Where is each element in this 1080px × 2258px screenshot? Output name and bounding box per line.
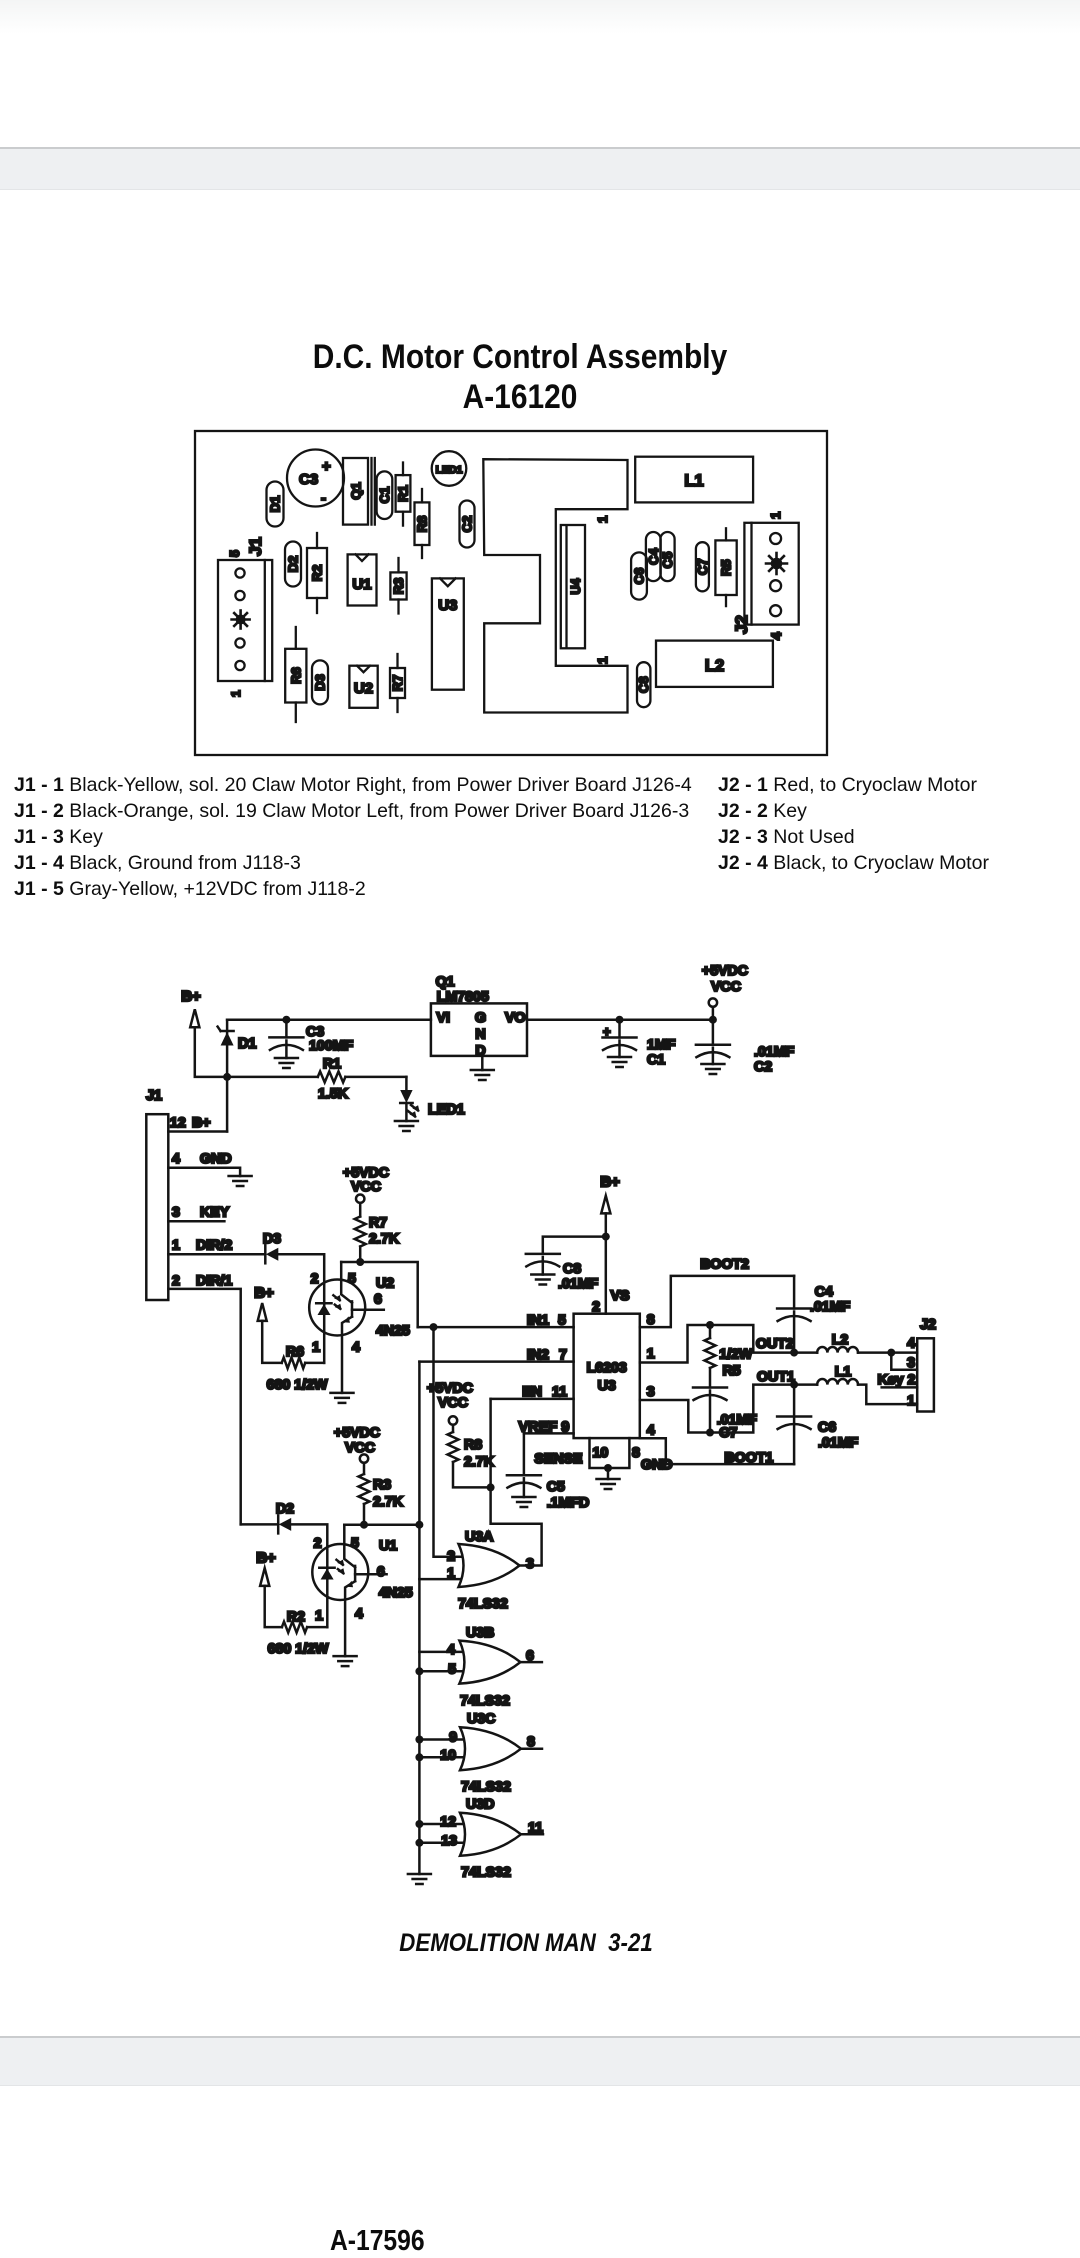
svg-text:R7: R7: [390, 675, 405, 692]
diode D2: [285, 542, 301, 587]
inductor L1 (pcb): [635, 457, 753, 503]
optocoupler U1 4N25: [312, 1525, 412, 1656]
svg-text:13: 13: [441, 1833, 457, 1849]
wire gate chain branch U3D pin13: [419, 1842, 467, 1845]
wiring list left column: [14, 772, 692, 902]
ground U2 pin4: [331, 1393, 354, 1403]
svg-text:N: N: [475, 1027, 485, 1043]
svg-text:B+: B+: [181, 988, 201, 1005]
capacitor C5 (pcb): [660, 532, 675, 581]
node +5VDC VCC (R7): [343, 1165, 389, 1203]
junction U3C pin10: [415, 1753, 423, 1761]
ground C1: [608, 1057, 631, 1067]
svg-text:680 1/2W: 680 1/2W: [267, 1377, 328, 1393]
resistor R6 680 1/2W: [262, 1321, 328, 1393]
wire J1-2 DIR/1 down to D2 row: [168, 1289, 240, 1525]
svg-text:R6: R6: [286, 1344, 304, 1360]
wire U3C output stub: [521, 1747, 542, 1750]
svg-text:U3A: U3A: [465, 1529, 493, 1545]
svg-text:6: 6: [374, 1291, 382, 1307]
svg-text:1MF: 1MF: [647, 1037, 676, 1053]
svg-text:10: 10: [440, 1748, 456, 1764]
svg-text:.01MF: .01MF: [810, 1299, 851, 1315]
node B+ (VS): [600, 1174, 620, 1214]
svg-text:LED1: LED1: [428, 1102, 465, 1118]
svg-text:5: 5: [228, 550, 242, 557]
heatsink plate: [483, 459, 627, 712]
svg-text:U1: U1: [379, 1538, 397, 1554]
svg-text:BOOT1: BOOT1: [724, 1450, 773, 1466]
svg-text:1: 1: [595, 516, 610, 523]
junction IN1 / U3A in2 branch: [430, 1323, 438, 1331]
IC U3 (pcb): [432, 578, 464, 689]
junction R7 / U2 pin5: [356, 1258, 364, 1266]
IC U1 (pcb): [348, 554, 377, 605]
page separator band bottom: [0, 2036, 1080, 2086]
svg-text:3: 3: [907, 1355, 915, 1371]
svg-text:4N25: 4N25: [376, 1323, 410, 1339]
svg-text:D: D: [475, 1043, 485, 1059]
svg-text:+: +: [603, 1024, 611, 1039]
svg-text:4: 4: [447, 1642, 455, 1658]
svg-text:LM7805: LM7805: [437, 989, 489, 1005]
capacitor C8 (pcb): [636, 662, 651, 707]
junction R3 / U1 pin5: [360, 1521, 368, 1529]
junction R8 / EN: [487, 1483, 495, 1491]
label EN 11: [522, 1384, 567, 1400]
wire U1 pin5 row to IN2 vertical: [344, 1523, 419, 1526]
svg-text:U3: U3: [598, 1378, 616, 1394]
node B+ (U2): [254, 1285, 274, 1321]
svg-text:C4: C4: [646, 548, 661, 565]
wiring list right column: [718, 772, 989, 876]
wire D1 branch vertical: [226, 1020, 229, 1132]
node +5VDC VCC (R3): [334, 1425, 380, 1463]
ground gate chain: [408, 1874, 431, 1884]
svg-text:C6: C6: [818, 1420, 836, 1436]
wire EN down to U3A output: [491, 1399, 542, 1565]
svg-text:LED1: LED1: [436, 464, 463, 476]
U3 bottom pins 10/8 sub-box: [590, 1438, 673, 1473]
svg-text:5: 5: [448, 1662, 456, 1678]
junction U3 gnd: [604, 1464, 612, 1472]
svg-text:5: 5: [348, 1271, 356, 1287]
IC U2 (pcb): [349, 666, 377, 708]
label IN2 7: [527, 1347, 567, 1363]
svg-text:U4: U4: [569, 578, 583, 594]
ground J1-4: [229, 1176, 252, 1186]
svg-text:J2: J2: [732, 615, 751, 634]
svg-text:DIR/2: DIR/2: [196, 1238, 232, 1254]
wire D2 to U1 pin2: [291, 1524, 327, 1627]
svg-text:VREF 9: VREF 9: [519, 1420, 570, 1436]
svg-text:R2: R2: [287, 1609, 305, 1625]
resistor R7: [390, 654, 405, 712]
svg-text:J1: J1: [146, 1088, 162, 1104]
connector J2 (schematic): [917, 1317, 936, 1412]
wire IN2 row: [419, 1360, 573, 1363]
svg-text:OUT2: OUT2: [756, 1336, 794, 1352]
capacitor C4 .01MF: [777, 1276, 850, 1353]
wire gate chain branch U3C pin10: [419, 1756, 467, 1759]
wire J1-12 to D1: [168, 1130, 227, 1133]
page separator band top: [0, 147, 1080, 190]
wire top rail to Q1 VI: [227, 1018, 431, 1021]
caption: [58, 1929, 994, 1958]
svg-text:VCC: VCC: [711, 979, 741, 995]
svg-text:R6: R6: [288, 667, 303, 684]
svg-text:74LS32: 74LS32: [461, 1779, 511, 1795]
bottom partial page number: [330, 2225, 425, 2258]
diode D1: [218, 1027, 257, 1052]
svg-text:2.7K: 2.7K: [464, 1454, 495, 1470]
svg-text:3: 3: [526, 1556, 534, 1572]
svg-text:100MF: 100MF: [309, 1038, 353, 1054]
svg-text:J2: J2: [920, 1317, 936, 1333]
wire branch to U3A input 1: [419, 1578, 465, 1581]
resistor R2: [307, 533, 327, 613]
resistor R2 680 1/2W: [265, 1586, 329, 1657]
resistor R8: [415, 489, 430, 558]
capacitor C2: [460, 501, 475, 548]
pin 12 B+ label: [170, 1115, 211, 1131]
junction C3 top: [282, 1016, 290, 1024]
label IN1 5: [527, 1313, 566, 1329]
connector J1 (schematic): [146, 1088, 168, 1300]
resistor R8 2.7K: [448, 1425, 495, 1488]
capacitor C6 (pcb): [631, 552, 647, 599]
svg-text:U2: U2: [354, 680, 373, 697]
svg-text:VO: VO: [505, 1010, 526, 1026]
junction R5 top: [706, 1321, 714, 1329]
junction C1: [616, 1016, 624, 1024]
ground U3 pin8: [597, 1479, 620, 1489]
svg-text:R8: R8: [464, 1437, 482, 1453]
svg-text:4: 4: [907, 1336, 915, 1352]
svg-text:R2: R2: [310, 565, 325, 582]
svg-text:Q1: Q1: [436, 974, 455, 990]
wire B+ stem to R1 row: [195, 1027, 227, 1077]
svg-text:KEY: KEY: [200, 1205, 230, 1221]
node +5VDC VCC (R8): [427, 1381, 473, 1425]
wire U3 pin1 to OUT2: [640, 1325, 794, 1363]
wire EN row: [491, 1398, 574, 1401]
diode D2: [276, 1501, 294, 1533]
svg-text:D2: D2: [286, 556, 301, 573]
svg-text:5: 5: [351, 1535, 359, 1551]
svg-text:R5: R5: [719, 559, 734, 576]
IC U3 L6203: [574, 1314, 640, 1438]
LED1 (schematic): [400, 1077, 465, 1121]
svg-text:12: 12: [170, 1115, 186, 1131]
svg-text:R7: R7: [369, 1215, 387, 1231]
svg-text:B+: B+: [600, 1174, 620, 1191]
OR gate U3A: [447, 1529, 534, 1612]
capacitor C3 100MF: [269, 1020, 353, 1058]
svg-text:R5: R5: [723, 1363, 741, 1379]
svg-text:U2: U2: [376, 1276, 394, 1292]
svg-text:L2: L2: [832, 1332, 849, 1348]
svg-text:IN1: IN1: [527, 1313, 549, 1329]
OR gate U3B: [447, 1625, 534, 1709]
wire Q1 ground stem: [481, 1056, 484, 1070]
svg-text:SENSE: SENSE: [534, 1451, 582, 1467]
connector J1: [218, 560, 272, 681]
svg-text:B+: B+: [256, 1550, 276, 1567]
svg-text:OUT1: OUT1: [757, 1369, 795, 1385]
svg-text:B+: B+: [254, 1285, 274, 1302]
svg-text:5: 5: [558, 1313, 566, 1329]
svg-text:C4: C4: [815, 1284, 833, 1300]
wire gate chain branch U3C pin9: [419, 1738, 467, 1741]
svg-text:L1: L1: [684, 472, 703, 490]
wire U3 pin8 to BOOT2: [640, 1276, 794, 1327]
wire gate chain branch U3D pin12: [419, 1823, 467, 1826]
svg-text:680 1/2W: 680 1/2W: [268, 1641, 329, 1657]
svg-text:C8: C8: [563, 1261, 581, 1277]
svg-text:VS: VS: [611, 1288, 630, 1304]
ground LED1: [395, 1121, 418, 1131]
resistor R3: [390, 558, 406, 614]
wire U3 gnd stem: [607, 1468, 610, 1479]
svg-text:U3D: U3D: [466, 1797, 494, 1813]
svg-text:D3: D3: [313, 674, 328, 691]
svg-text:10: 10: [593, 1445, 609, 1461]
transistor Q1: [343, 458, 375, 525]
svg-text:L6203: L6203: [587, 1360, 627, 1376]
node B+ (U1): [256, 1550, 276, 1586]
svg-text:D1: D1: [238, 1036, 256, 1052]
capacitor C8 .01MF: [526, 1237, 606, 1292]
inductor L2 (pcb): [656, 641, 773, 687]
ground C2: [701, 1064, 724, 1074]
inductor L1: [794, 1364, 917, 1404]
svg-text:VCC: VCC: [438, 1395, 468, 1411]
svg-text:+5VDC: +5VDC: [334, 1425, 380, 1441]
svg-text:4: 4: [355, 1606, 363, 1622]
svg-text:C6: C6: [632, 568, 647, 585]
wire gate chain branch U3B pin4: [419, 1651, 466, 1654]
capacitor C4 (pcb): [646, 532, 661, 581]
wire VREF row: [524, 1432, 574, 1435]
ground C5: [512, 1497, 535, 1507]
key pin star J1-3: [232, 611, 250, 629]
svg-text:R1: R1: [396, 485, 411, 502]
junction C8 branch: [602, 1233, 610, 1241]
junction U3C pin9: [415, 1736, 423, 1744]
svg-text:J1: J1: [246, 537, 265, 556]
wire Q1 VO to VCC node: [527, 1018, 713, 1021]
svg-text:1: 1: [768, 512, 783, 519]
optocoupler U2 4N25: [309, 1262, 410, 1393]
svg-text:1: 1: [312, 1339, 320, 1355]
svg-text:2.7K: 2.7K: [369, 1231, 400, 1247]
resistor R3 2.7K: [359, 1463, 404, 1525]
svg-text:1: 1: [907, 1393, 915, 1409]
pin 1 DIR/2 label: [172, 1238, 232, 1254]
svg-text:R3: R3: [373, 1477, 391, 1493]
svg-text:4: 4: [352, 1339, 360, 1355]
capacitor C7 (pcb): [695, 542, 710, 591]
svg-text:1: 1: [447, 1566, 455, 1582]
junction J2 pins 3/4: [887, 1349, 895, 1357]
ground C8: [531, 1275, 554, 1285]
svg-text:1: 1: [229, 690, 243, 697]
svg-text:DIR/1: DIR/1: [196, 1273, 232, 1289]
diode D1: [267, 482, 284, 527]
junction U3D pin12: [415, 1820, 423, 1828]
svg-text:8: 8: [632, 1445, 640, 1461]
wire J1-3 key stub: [168, 1220, 224, 1223]
board outline: [195, 431, 827, 755]
svg-text:1: 1: [647, 1346, 655, 1362]
svg-text:4: 4: [768, 632, 784, 640]
svg-text:-: -: [321, 490, 326, 507]
svg-text:9: 9: [449, 1730, 457, 1746]
svg-text:D2: D2: [276, 1501, 294, 1517]
svg-text:4N25: 4N25: [379, 1585, 413, 1601]
svg-text:.01MF: .01MF: [558, 1276, 599, 1292]
svg-text:C1: C1: [377, 487, 392, 504]
resistor R7 2.7K: [355, 1203, 400, 1262]
inductor L2: [794, 1332, 917, 1353]
svg-text:C3: C3: [299, 471, 318, 488]
wire VS: B+ down to U3 pin2: [605, 1213, 608, 1313]
svg-text:C5: C5: [547, 1479, 565, 1495]
wire U3B output stub: [520, 1661, 542, 1664]
wire J1-4 to ground: [168, 1168, 240, 1176]
svg-text:L1: L1: [835, 1364, 852, 1380]
wire U3 pin4 to BOOT1: [640, 1438, 794, 1464]
junction OUT2: [790, 1349, 798, 1357]
wire U3D output stub: [521, 1833, 543, 1836]
svg-text:Q1: Q1: [349, 482, 364, 499]
title: [62, 337, 977, 417]
svg-text:R8: R8: [415, 516, 430, 533]
svg-text:EN: EN: [522, 1384, 542, 1400]
svg-text:U3C: U3C: [467, 1711, 495, 1727]
svg-text:1: 1: [315, 1608, 323, 1624]
connector J2 (pcb): [744, 523, 798, 625]
svg-text:D1: D1: [268, 496, 283, 513]
svg-text:G: G: [475, 1010, 486, 1026]
LED1: [432, 451, 467, 486]
wire IN2 vertical down to gate chain: [418, 1362, 421, 1874]
svg-text:U1: U1: [352, 576, 371, 593]
svg-text:+5VDC: +5VDC: [702, 963, 748, 979]
key pin star J2-2: [766, 553, 787, 574]
svg-text:12: 12: [440, 1814, 456, 1830]
diode D3: [312, 660, 328, 704]
svg-text:2: 2: [447, 1549, 455, 1565]
svg-text:2: 2: [172, 1273, 180, 1289]
junction U3D pin13: [415, 1839, 423, 1847]
junction pin5 row / IN2 vertical: [415, 1521, 423, 1529]
svg-text:11: 11: [552, 1384, 567, 1400]
wire jumper to J2 pin3: [891, 1353, 917, 1370]
svg-text:.01MF: .01MF: [754, 1044, 795, 1060]
svg-text:1: 1: [595, 657, 610, 664]
svg-text:R3: R3: [391, 578, 406, 595]
svg-text:U3: U3: [438, 597, 457, 614]
svg-text:VCC: VCC: [345, 1440, 375, 1456]
svg-text:C5: C5: [660, 552, 675, 569]
svg-text:3: 3: [647, 1384, 655, 1400]
svg-text:VCC: VCC: [351, 1179, 381, 1195]
OR gate U3C: [440, 1711, 535, 1795]
svg-text:C7: C7: [695, 558, 710, 575]
capacitor C5 .1MFD: [507, 1433, 589, 1511]
svg-text:L2: L2: [705, 657, 724, 675]
svg-text:1.5K: 1.5K: [318, 1086, 349, 1102]
junction C2/VCC: [709, 1016, 717, 1024]
wire U3 pin3 to OUT1: [640, 1385, 794, 1433]
svg-text:4: 4: [172, 1151, 180, 1167]
svg-text:IN2: IN2: [527, 1347, 549, 1363]
wire D3 to U2 pin2: [278, 1254, 324, 1363]
wire gate chain branch U3B pin5: [419, 1670, 466, 1673]
svg-text:C1: C1: [647, 1052, 665, 1068]
svg-text:B+: B+: [192, 1115, 211, 1131]
pin 4 GND label: [172, 1151, 232, 1167]
svg-text:74LS32: 74LS32: [461, 1865, 511, 1881]
wire J1-1 to D3: [168, 1253, 265, 1256]
svg-text:74LS32: 74LS32: [458, 1596, 508, 1612]
wire IN1 branch down to U3A input 2: [434, 1327, 466, 1557]
capacitor C1 1MF: [603, 1020, 676, 1068]
pin 3 KEY label: [172, 1205, 230, 1221]
svg-text:1: 1: [172, 1238, 180, 1254]
resistor R1: [396, 463, 411, 526]
svg-text:2: 2: [314, 1536, 322, 1552]
svg-text:2.7K: 2.7K: [373, 1494, 404, 1510]
junction R5/C7 bottom: [706, 1429, 714, 1437]
svg-text:4: 4: [647, 1423, 655, 1439]
svg-text:Key 2: Key 2: [878, 1372, 916, 1388]
resistor R5 1/2W: [705, 1325, 753, 1388]
wire IN1 row: [418, 1326, 574, 1329]
OR gate U3D: [440, 1797, 543, 1881]
svg-text:U3B: U3B: [466, 1625, 494, 1641]
svg-text:D3: D3: [263, 1231, 281, 1247]
svg-text:6: 6: [377, 1564, 385, 1580]
capacitor C1: [377, 471, 393, 519]
svg-text:VI: VI: [437, 1010, 450, 1026]
wire DIR/1 row to D2: [241, 1523, 279, 1526]
svg-text:C2: C2: [460, 516, 475, 533]
junction OUT1: [790, 1381, 798, 1389]
IC U4: [561, 525, 585, 648]
svg-text:+: +: [322, 458, 331, 475]
svg-text:.1MFD: .1MFD: [547, 1495, 590, 1511]
capacitor C3: [287, 450, 344, 508]
junction U3B pin5: [415, 1667, 423, 1675]
svg-text:1/2W: 1/2W: [719, 1347, 753, 1363]
pin 2 DIR/1 label: [172, 1273, 232, 1289]
capacitor C6 .01MF: [777, 1385, 858, 1465]
svg-text:C2: C2: [754, 1059, 772, 1075]
resistor R6: [285, 627, 306, 722]
svg-text:8: 8: [647, 1312, 655, 1328]
ground C3: [275, 1058, 298, 1068]
wire U2 pin5 row to IN1: [341, 1262, 418, 1327]
resistor R1 1.5K: [227, 1056, 406, 1102]
svg-text:BOOT2: BOOT2: [700, 1257, 749, 1273]
ground Q1: [471, 1070, 494, 1080]
svg-text:.01MF: .01MF: [818, 1435, 859, 1451]
capacitor C2 .01MF: [696, 1020, 795, 1075]
key stub J2 pin2: [882, 1386, 918, 1389]
